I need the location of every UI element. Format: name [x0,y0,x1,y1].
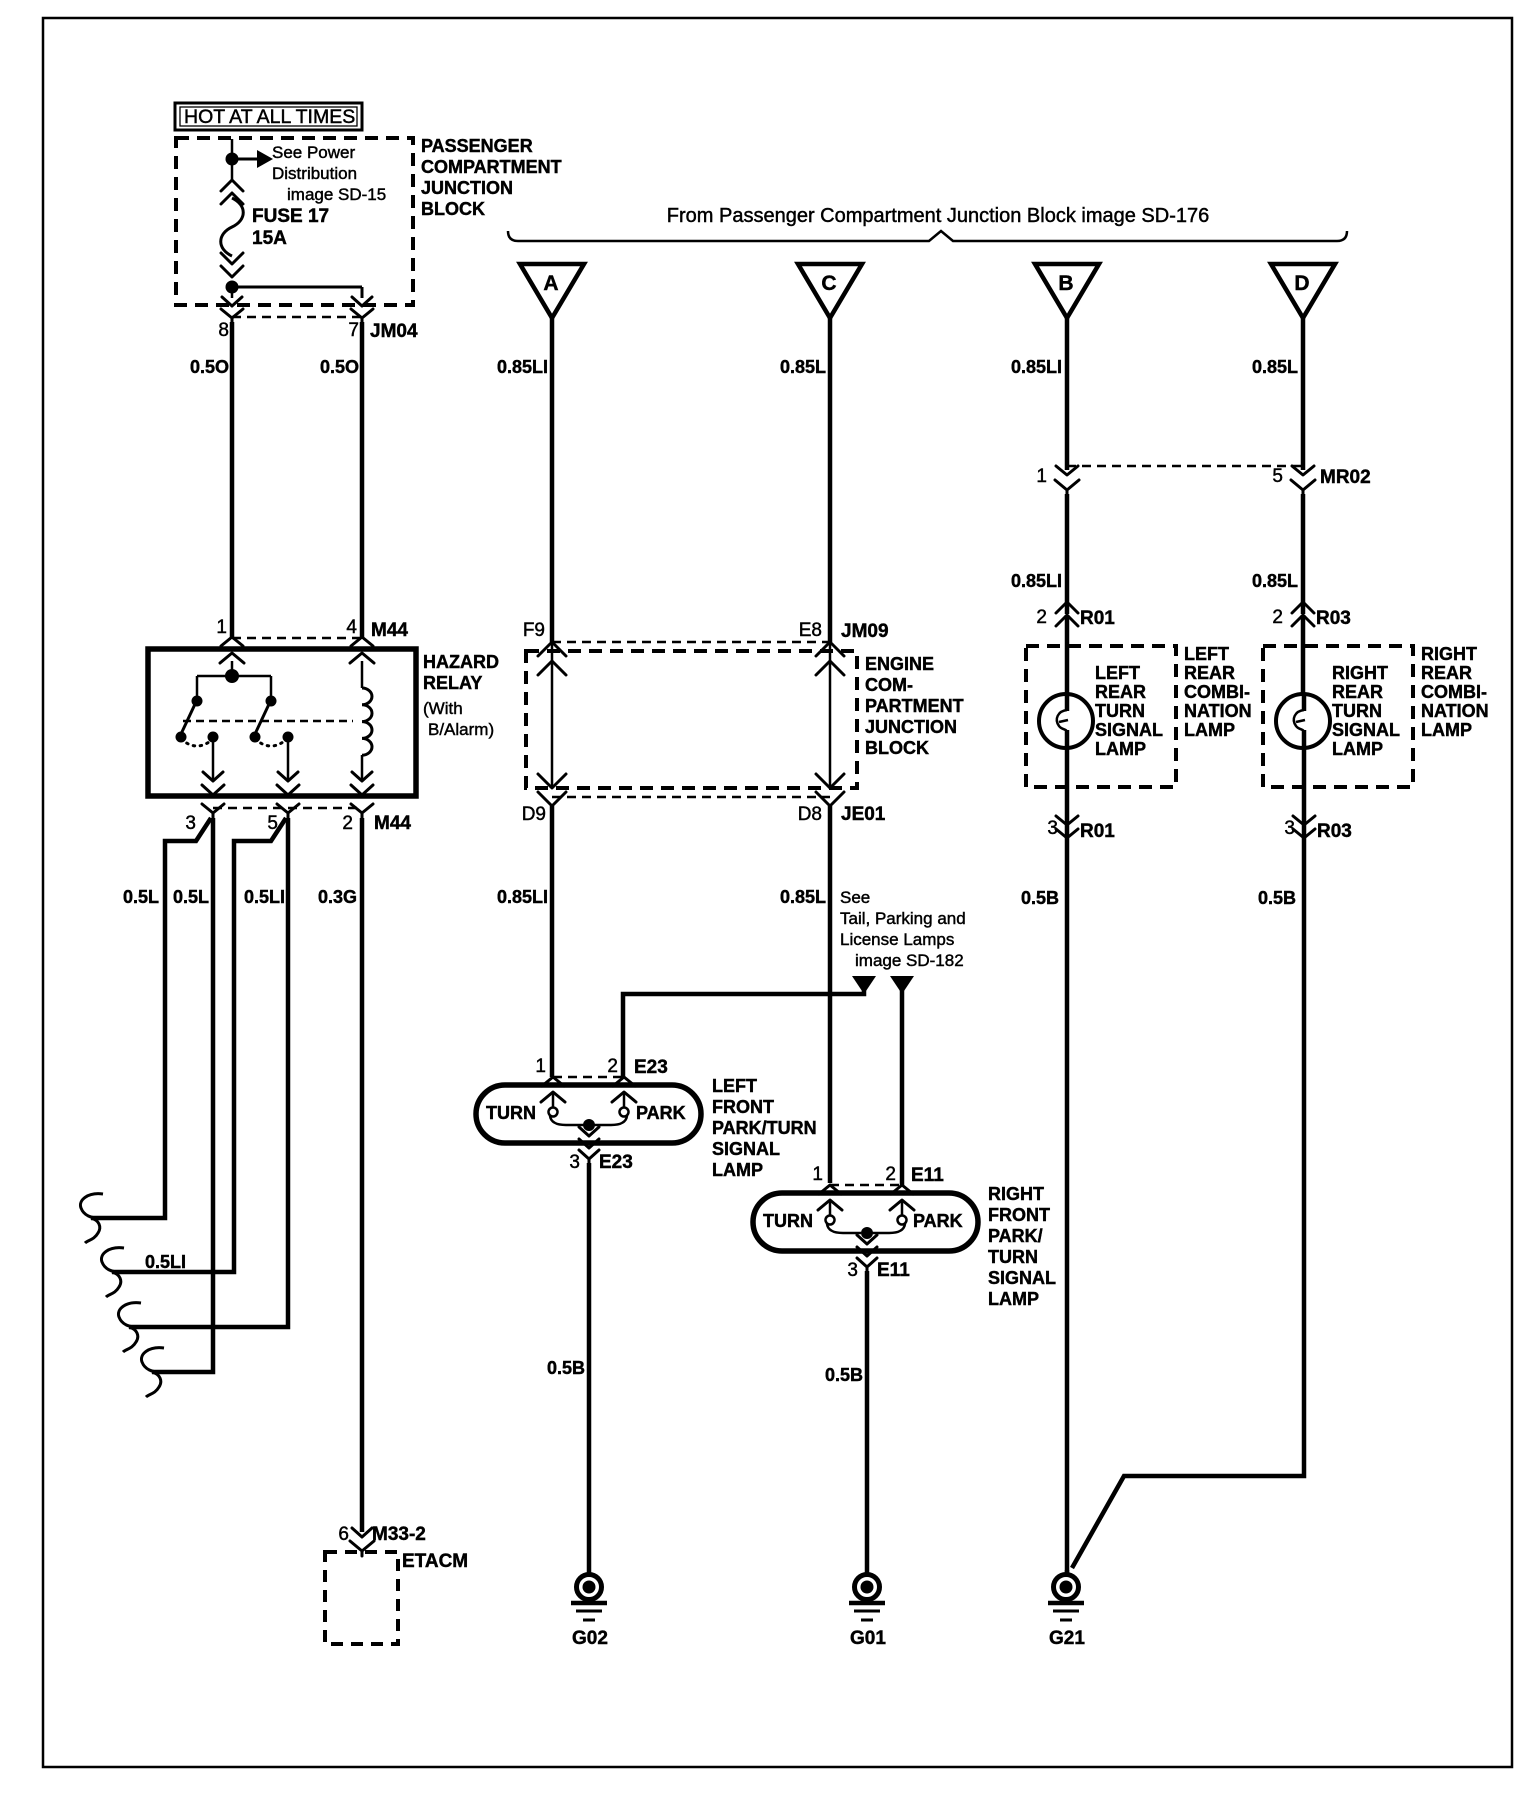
svg-text:G02: G02 [572,1628,608,1649]
svg-text:RIGHT: RIGHT [988,1184,1044,1204]
wire pin3 diagonal branch 0.5L [80,818,211,1243]
svg-text:0.85LI: 0.85LI [1011,571,1062,591]
svg-text:M33-2: M33-2 [372,1524,426,1545]
connector M33-2 pin 6 [338,1524,425,1556]
wire inside ECJB right [829,644,832,786]
pin dashed line E11 [830,1184,902,1187]
svg-text:M44: M44 [374,813,411,834]
svg-text:A: A [543,272,558,295]
svg-text:0.85L: 0.85L [780,357,826,377]
svg-text:PARTMENT: PARTMENT [865,696,964,716]
right front park/turn signal lamp E11 [753,1184,1056,1309]
connector E23 pin 3 [569,1125,632,1173]
svg-text:R01: R01 [1080,821,1115,842]
connector E11 pin 2 [885,1164,944,1210]
svg-text:PARK/: PARK/ [988,1226,1043,1246]
svg-text:0.85LI: 0.85LI [1011,357,1062,377]
lamp E11 PARK filament [872,1200,963,1233]
right rear turn signal bulb [1276,694,1330,838]
svg-text:E11: E11 [911,1165,944,1186]
connector R03 pin 2 [1272,602,1350,629]
svg-text:5: 5 [1272,466,1283,487]
svg-text:image SD-182: image SD-182 [855,951,964,970]
svg-text:3: 3 [185,813,196,834]
svg-text:3: 3 [569,1152,580,1173]
svg-text:REAR: REAR [1095,682,1146,702]
wire 0.5B from E23 pin 3 [547,1163,589,1573]
left front park/turn signal lamp E23 [476,1076,817,1180]
connector R01 pin 3 [1047,816,1115,842]
svg-text:ENGINE: ENGINE [865,654,934,674]
svg-text:1: 1 [1036,466,1047,487]
wire into left rear lamp [1065,615,1070,694]
svg-text:COMPARTMENT: COMPARTMENT [421,157,562,177]
svg-text:License Lamps: License Lamps [840,930,954,949]
SD-182 connection triangle 1 [623,976,876,1077]
svg-text:BLOCK: BLOCK [865,738,929,758]
ground G02 [571,1575,608,1650]
svg-text:JM04: JM04 [370,321,418,342]
svg-text:3: 3 [847,1260,858,1281]
svg-text:REAR: REAR [1184,663,1235,683]
svg-text:SIGNAL: SIGNAL [1332,720,1400,740]
pin dashed line JM09 [552,641,830,644]
connector M44 pin 2 [342,804,411,834]
left rear combination lamp box [1026,644,1252,787]
wire pin5 diagonal branch 0.5LI [101,818,286,1297]
svg-text:TURN: TURN [988,1247,1038,1267]
svg-text:See: See [840,888,870,907]
arrow to See Power Distribution [238,143,386,204]
wire [231,165,234,182]
connector E23 pin 1 [535,1056,565,1102]
svg-text:PARK: PARK [913,1211,963,1231]
svg-text:F9: F9 [523,620,545,641]
svg-text:D: D [1294,272,1309,295]
svg-text:JUNCTION: JUNCTION [865,717,957,737]
svg-text:FRONT: FRONT [988,1205,1050,1225]
wire pin3 straight 0.5L [141,818,213,1397]
lamp E23 PARK filament [594,1092,686,1125]
connector E11 pin 1 [812,1164,842,1210]
connector M44 pin 5 [267,804,299,834]
wire 0.5B left rear [1021,838,1067,1573]
wire 0.5B right rear to G21 [1072,838,1304,1568]
connector JM09 pin F9 [523,620,566,675]
svg-text:0.5B: 0.5B [1021,888,1059,908]
lamp E23 TURN filament [486,1092,584,1125]
note: see tail parking and license lamps image SD-182 [840,888,966,970]
svg-text:E23: E23 [634,1057,668,1078]
svg-text:R03: R03 [1317,821,1352,842]
pin dashed line MR02 [1067,465,1303,468]
svg-text:3: 3 [1284,818,1295,839]
wire 0.5O right [360,322,365,638]
svg-text:COM-: COM- [865,675,913,695]
svg-text:2: 2 [885,1164,896,1185]
connector R01 pin 2 [1036,602,1115,629]
node D triangle [1271,264,1335,318]
right rear combination lamp box [1263,644,1489,787]
svg-text:7: 7 [348,320,359,341]
svg-text:E11: E11 [877,1260,910,1281]
svg-text:0.85L: 0.85L [1252,357,1298,377]
connector M44 pin 1 [216,617,244,663]
svg-text:6: 6 [338,1524,349,1545]
node A triangle [520,264,584,318]
svg-text:D9: D9 [522,804,546,825]
svg-text:LEFT: LEFT [1095,663,1140,683]
fuse 17 symbol [221,198,244,256]
SD-182 connection triangle 2 [890,976,914,1185]
svg-text:PASSENGER: PASSENGER [421,136,533,156]
svg-text:0.85LI: 0.85LI [497,357,548,377]
connector MR02 pin 5 [1272,466,1370,494]
svg-text:0.5LI: 0.5LI [145,1252,186,1272]
svg-text:0.5O: 0.5O [320,357,359,377]
connector JE01 pin D8 [798,774,886,825]
svg-text:RIGHT: RIGHT [1421,644,1477,664]
svg-text:PARK: PARK [636,1103,686,1123]
svg-text:NATION: NATION [1421,701,1489,721]
svg-text:0.3G: 0.3G [318,887,357,907]
svg-text:SIGNAL: SIGNAL [712,1139,780,1159]
brace: from passenger compartment junction block image SD-176 [508,205,1347,241]
svg-text:COMBI-: COMBI- [1184,682,1250,702]
ETACM dashed box [325,1551,468,1644]
wire D 0.85L [1252,318,1303,470]
svg-text:SIGNAL: SIGNAL [988,1268,1056,1288]
passenger compartment junction block (dashed box) [176,136,562,305]
pin dashed line M44 top [232,637,362,640]
svg-text:1: 1 [535,1056,546,1077]
svg-text:0.5L: 0.5L [123,887,159,907]
svg-text:FUSE 17: FUSE 17 [252,206,329,227]
lamp E23 common node [583,1119,595,1131]
wire A lower 0.85LI [497,806,552,1077]
svg-text:Distribution: Distribution [272,164,357,183]
svg-text:LAMP: LAMP [1095,739,1146,759]
hazard relay box [148,649,499,796]
svg-text:M44: M44 [371,620,408,641]
wire into right rear lamp [1301,615,1306,694]
ground G01 [849,1575,886,1650]
svg-text:2: 2 [1036,607,1047,628]
relay actuation dashed line [183,720,353,723]
lamp E11 TURN filament [763,1200,861,1233]
svg-text:E8: E8 [799,620,822,641]
svg-text:LEFT: LEFT [1184,644,1229,664]
svg-text:JUNCTION: JUNCTION [421,178,513,198]
pin dashed line M44 bottom [213,807,362,810]
svg-text:(With: (With [423,699,463,718]
connector chevrons up [221,180,243,204]
connector E23 pin 2 [607,1056,667,1102]
svg-text:TURN: TURN [1095,701,1145,721]
svg-text:C: C [821,272,836,295]
svg-text:0.5B: 0.5B [825,1365,863,1385]
node B triangle [1035,264,1099,318]
wire 0.5O left [230,322,235,638]
svg-text:0.85L: 0.85L [780,887,826,907]
svg-text:2: 2 [607,1056,618,1077]
svg-text:REAR: REAR [1421,663,1472,683]
pin dashed line E23 [553,1076,624,1079]
svg-text:JE01: JE01 [841,804,886,825]
svg-text:FRONT: FRONT [712,1097,774,1117]
svg-text:G01: G01 [850,1628,886,1649]
svg-text:HAZARD: HAZARD [423,652,499,672]
connector E11 pin 3 [847,1233,910,1281]
svg-text:Tail, Parking and: Tail, Parking and [840,909,966,928]
svg-text:TURN: TURN [486,1103,536,1123]
connector M44 pin 3 [185,804,224,834]
svg-text:LAMP: LAMP [1184,720,1235,740]
svg-text:B/Alarm): B/Alarm) [428,720,494,739]
relay internal: pin1 wire and common node [231,661,234,676]
svg-text:R01: R01 [1080,608,1115,629]
svg-text:D8: D8 [798,804,822,825]
wire B 0.85LI [1011,318,1067,470]
wire D lower 0.85L [1252,494,1303,614]
svg-text:LAMP: LAMP [1332,739,1383,759]
svg-text:2: 2 [1272,607,1283,628]
svg-text:BLOCK: BLOCK [421,199,485,219]
svg-text:0.85L: 0.85L [1252,571,1298,591]
svg-text:0.5LI: 0.5LI [244,887,285,907]
svg-text:1: 1 [216,617,227,638]
svg-text:PARK/TURN: PARK/TURN [712,1118,817,1138]
svg-text:NATION: NATION [1184,701,1252,721]
connector M44 pin 4 [346,617,408,663]
relay switch 2 [250,676,300,795]
wire from top edge to node [231,139,234,159]
svg-text:See Power: See Power [272,143,355,162]
svg-text:G21: G21 [1049,1628,1085,1649]
connector JM04 pin 8 [218,297,243,341]
wire pin2 0.3G [318,818,362,1532]
svg-text:ETACM: ETACM [402,1551,468,1572]
wire 0.5B from E11 pin 3 [825,1271,867,1573]
wire to pin 7 branch [232,286,362,289]
pin dashed line JE01 [552,796,830,799]
pin dashed line JM04 [232,316,362,319]
svg-text:COMBI-: COMBI- [1421,682,1487,702]
svg-text:B: B [1058,272,1073,295]
connector JM04 pin 7 [348,297,418,342]
svg-text:image SD-15: image SD-15 [287,185,386,204]
wire C lower 0.85L [780,806,830,1183]
connector MR02 pin 1 [1036,466,1079,494]
junction dot [226,281,239,294]
svg-text:0.5L: 0.5L [173,887,209,907]
svg-text:MR02: MR02 [1320,467,1371,488]
svg-text:E23: E23 [599,1152,633,1173]
connector JE01 pin D9 [522,774,566,825]
wire pin5 straight 0.5LI [118,818,288,1352]
connector R03 pin 3 [1284,816,1351,842]
connector JM09 pin E8 [799,620,889,675]
relay coil [351,661,373,795]
ground G21 [1048,1570,1085,1649]
svg-text:R03: R03 [1316,608,1351,629]
svg-text:RELAY: RELAY [423,673,482,693]
svg-text:TURN: TURN [1332,701,1382,721]
svg-text:LAMP: LAMP [988,1289,1039,1309]
svg-text:0.5B: 0.5B [1258,888,1296,908]
svg-text:HOT AT ALL TIMES: HOT AT ALL TIMES [184,106,355,128]
svg-text:From Passenger Compartment Jun: From Passenger Compartment Junction Bloc… [667,205,1209,227]
svg-text:0.85LI: 0.85LI [497,887,548,907]
svg-text:8: 8 [218,320,229,341]
svg-text:LAMP: LAMP [712,1160,763,1180]
left rear turn signal bulb [1039,694,1093,838]
svg-text:TURN: TURN [763,1211,813,1231]
lamp E11 common node [861,1227,873,1239]
svg-text:LAMP: LAMP [1421,720,1472,740]
svg-text:4: 4 [346,617,357,638]
svg-text:RIGHT: RIGHT [1332,663,1388,683]
connector chevrons down [221,253,243,277]
svg-text:1: 1 [812,1164,823,1185]
wire inside ECJB left [551,644,554,786]
svg-text:2: 2 [342,813,353,834]
svg-text:SIGNAL: SIGNAL [1095,720,1163,740]
node C triangle [798,264,862,318]
relay switch 1 [176,676,225,795]
svg-text:JM09: JM09 [841,621,889,642]
wire A 0.85LI [497,318,552,642]
wire C 0.85L [780,318,830,642]
svg-text:3: 3 [1047,818,1058,839]
svg-text:LEFT: LEFT [712,1076,757,1096]
engine compartment junction block (dashed box) [526,651,964,788]
wire B lower 0.85LI [1011,494,1067,614]
svg-text:15A: 15A [252,228,287,249]
svg-text:0.5B: 0.5B [547,1358,585,1378]
svg-text:REAR: REAR [1332,682,1383,702]
svg-text:0.5O: 0.5O [190,357,229,377]
junction dot [226,153,239,166]
hot at all times label box [175,103,362,130]
